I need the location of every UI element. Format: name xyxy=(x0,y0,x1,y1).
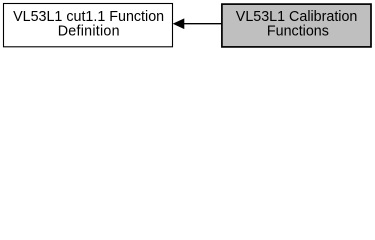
arrowhead xyxy=(174,19,184,28)
node: VL53L1 cut1.1 Function Definition xyxy=(4,4,173,47)
node: VL53L1 Calibration Functions (selected, grey) xyxy=(222,4,371,47)
edge arrow from right node to left node xyxy=(174,19,222,28)
wire: arrow shaft xyxy=(184,23,222,25)
svg-text:Functions: Functions xyxy=(267,23,329,39)
svg-text:Definition: Definition xyxy=(58,23,120,39)
